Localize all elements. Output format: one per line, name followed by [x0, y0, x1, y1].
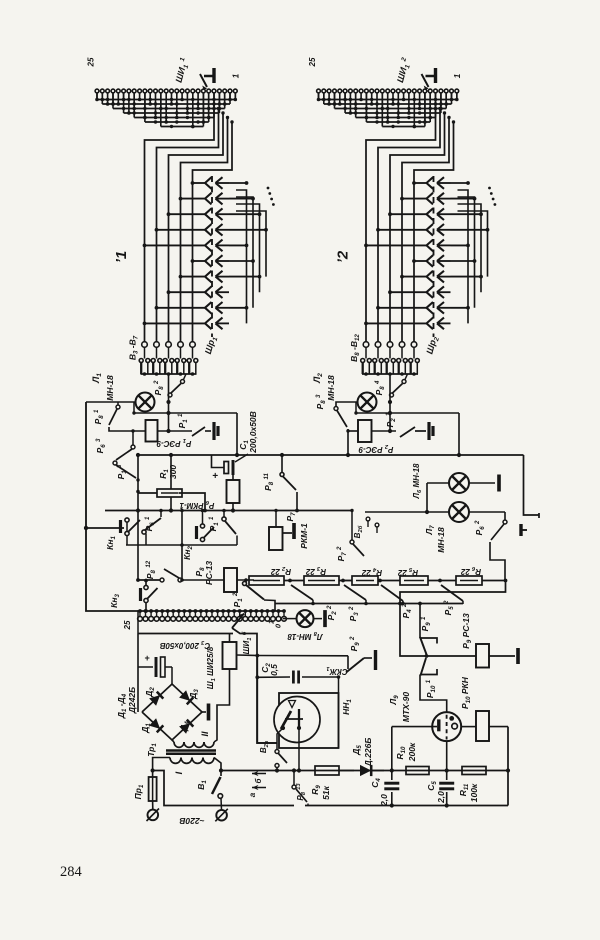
capacitor C3 — [155, 657, 158, 677]
contact P6-3 — [132, 431, 134, 445]
resistor chain wire — [237, 579, 254, 581]
bus 2 — [105, 510, 352, 512]
fixed contact bar (P6-2) — [519, 524, 522, 536]
tube L9 MTX-90 — [432, 712, 461, 741]
wire kn chain down — [126, 544, 237, 546]
upper link wire right — [356, 412, 459, 414]
ground (P9) — [489, 655, 515, 657]
left vertical bus x138 — [137, 455, 139, 580]
stepping switch bank ShI1b line — [140, 610, 284, 612]
connector Шр_2 contacts — [427, 177, 434, 183]
svg-text:РКМ-1: РКМ-1 — [299, 523, 309, 549]
svg-text:25: 25 — [123, 620, 132, 630]
wire lamp L1 left feed — [86, 401, 136, 403]
lower collect bus — [275, 603, 463, 605]
relay P6 coil — [227, 480, 240, 503]
svg-text:1: 1 — [453, 73, 462, 78]
resistor R6 — [456, 576, 482, 585]
relay P9 coil RS-13 — [476, 644, 489, 668]
svg-text:300: 300 — [168, 465, 178, 479]
capacitor C5 — [445, 768, 449, 772]
wire R1 bypass vertical — [170, 455, 172, 490]
contact P8-1 — [116, 405, 120, 409]
wiper ShI1b — [232, 614, 244, 629]
resistor R4 — [352, 576, 378, 585]
stepping switch bank ShI1b pins — [138, 609, 142, 613]
pushbutton Kn1 — [86, 527, 124, 529]
diode D4 — [179, 723, 190, 734]
wire P1 to contact — [158, 430, 191, 432]
contact feed wires — [193, 182, 206, 184]
svg-text:I: I — [174, 771, 185, 774]
lamp L7 — [449, 502, 469, 522]
svg-text:МТХ-90: МТХ-90 — [401, 692, 411, 723]
svg-text:Д.226Б: Д.226Б — [363, 738, 373, 768]
matrix wires to connector — [366, 104, 436, 341]
NN1 leads — [277, 728, 283, 736]
svg-text:51к: 51к — [321, 785, 331, 799]
contact P8-2 — [168, 393, 172, 397]
contact P4-2 — [381, 585, 403, 601]
resistor R3 — [304, 576, 339, 585]
terminals В_3-В_7 — [142, 342, 148, 348]
contact B2b jacks — [366, 517, 370, 521]
probe arrows a b — [252, 773, 266, 775]
wiper of ШИ_1^2 — [434, 68, 437, 83]
contact P1-1b — [222, 517, 226, 521]
ground (P7) — [283, 532, 292, 534]
contact P7-2 — [351, 511, 353, 541]
wiper of ШИ_1^1 — [212, 68, 215, 83]
connector return wires — [236, 190, 247, 323]
ellipsis dots — [267, 187, 270, 190]
ground (L8) — [323, 610, 327, 627]
wire C3 to bridge — [171, 667, 173, 684]
capacitor C3 wires — [137, 634, 139, 713]
lamp jack sockets — [139, 359, 143, 363]
svg-text:100к: 100к — [469, 783, 479, 802]
diode D2 — [149, 695, 160, 706]
contact P3-2 — [344, 585, 366, 600]
diode D5 — [339, 770, 354, 772]
resistor R5 — [400, 576, 428, 585]
capacitor C1 — [212, 455, 225, 468]
svg-text:284: 284 — [60, 864, 83, 880]
svg-text:2,0: 2,0 — [379, 794, 389, 807]
relay P8 row wire — [138, 579, 160, 581]
supply top wire — [138, 633, 233, 635]
relay P7 coil — [269, 527, 283, 550]
connector Шр_2 dashed line — [433, 176, 435, 337]
resistor R11 — [462, 767, 486, 775]
wire P2 to contact — [372, 430, 397, 432]
contact P9-2 SKZh1 — [257, 655, 348, 657]
connector return wires — [458, 190, 469, 323]
stepping switch field ШИ_1^2 pin row — [317, 89, 321, 93]
connector Шр_1 dashed line — [211, 176, 213, 337]
capacitor C2 wire — [255, 675, 259, 679]
terminal to jack stubs — [144, 347, 146, 358]
svg-text:0,5: 0,5 — [269, 664, 279, 676]
pin bus mesh — [319, 99, 457, 101]
coil bottom wire — [214, 669, 230, 742]
contact P6-2 — [504, 512, 506, 520]
wire P8-3 down to bus — [347, 429, 349, 455]
tube cathode wire — [446, 741, 448, 771]
wire lamp L2 left lead — [336, 402, 358, 407]
connector Шр_1 contacts — [205, 177, 212, 183]
main middle bus — [138, 454, 524, 456]
wire bus to P9 row — [400, 581, 506, 657]
svg-text:Д242Б: Д242Б — [127, 687, 137, 714]
ellipsis dots — [488, 187, 491, 190]
contact P9-1 — [419, 604, 421, 639]
main lower rail — [221, 770, 508, 772]
stepping coil ShI1 — [223, 642, 237, 669]
wire L7 leads — [426, 483, 428, 512]
svg-text:200к: 200к — [407, 742, 417, 762]
left vertical to B2a corner — [257, 656, 277, 744]
contact P8-4 — [390, 393, 394, 397]
contact P1-3 — [113, 461, 117, 465]
wire C2 right down — [338, 677, 340, 748]
contact B2a — [276, 736, 278, 749]
relay P7 feed — [275, 511, 277, 528]
transformer Tr1 primary I — [170, 758, 181, 764]
svg-text:МН-18: МН-18 — [436, 527, 446, 553]
upper link wire — [134, 412, 237, 414]
contact P8-12 — [160, 578, 164, 582]
svg-text:МН-18: МН-18 — [105, 375, 115, 401]
svg-text:~220В: ~220В — [179, 816, 204, 826]
lamp L8 — [283, 618, 296, 620]
resistor R2 — [249, 576, 284, 585]
switch V1 — [214, 758, 221, 777]
wire jack bus 2 to lamp L2 — [389, 374, 391, 431]
svg-text:+: + — [212, 471, 218, 482]
transformer Tr1 secondary II — [174, 742, 184, 747]
lamp L2 — [358, 393, 377, 412]
capacitor C4 — [390, 768, 394, 772]
relay P1 coil — [146, 420, 158, 442]
contact feed wires — [414, 182, 427, 184]
resistor R9 — [315, 766, 339, 775]
svg-text:’1: ’1 — [113, 251, 130, 264]
contact P6-1 — [142, 530, 146, 534]
ground (bridge) — [202, 711, 206, 713]
matrix wires to connector — [145, 104, 215, 341]
contact P1-2 — [245, 581, 247, 582]
relay P2 row wire — [348, 430, 358, 432]
svg-text:2,0: 2,0 — [436, 791, 446, 804]
bus corner right — [524, 455, 540, 515]
indicator NN1 frame — [279, 693, 339, 748]
svg-text:+: + — [144, 653, 150, 663]
contact P5-2 — [441, 585, 463, 601]
indicator NN1 bulb — [274, 697, 320, 743]
pushbutton Kn2 — [195, 526, 198, 539]
transformer core — [166, 749, 216, 752]
svg-text:200,0х50В: 200,0х50В — [248, 411, 258, 454]
wire to tube L9 — [420, 675, 447, 713]
stepping coil ShI1 feed — [229, 634, 231, 643]
svg-text:1: 1 — [267, 620, 276, 624]
pushbutton Kn3 — [86, 605, 140, 611]
fuse Pr1 — [149, 777, 157, 801]
ground (P1-1) — [212, 422, 215, 440]
return rail riser — [153, 771, 294, 806]
contact P1-1 — [190, 430, 192, 432]
bottom return rail — [305, 805, 508, 807]
mains terminal right — [216, 810, 227, 821]
coil right wire — [237, 654, 258, 657]
left supply rail — [85, 402, 87, 605]
lamp L1 — [136, 393, 155, 412]
wire L6 leads — [427, 482, 449, 484]
svg-text:РС-13: РС-13 — [204, 561, 214, 585]
svg-text:1: 1 — [231, 73, 240, 78]
leader line C1 — [235, 454, 248, 462]
ground (L6) — [497, 475, 501, 492]
lamp jack sockets — [361, 359, 365, 363]
wire relay P1 row — [109, 427, 146, 431]
mains terminal left — [152, 801, 154, 810]
jack bus — [141, 373, 197, 375]
ground (P2-1) — [427, 422, 430, 440]
tube starter wire — [392, 726, 437, 728]
primary left lead to fuse — [153, 758, 170, 778]
right vertical — [507, 727, 509, 806]
wire jack bus to lamp L1 — [168, 374, 170, 431]
terminal to jack stubs — [365, 347, 367, 358]
pin bus mesh — [97, 99, 235, 101]
contact P8-3 — [334, 407, 338, 411]
resistor R1 — [157, 489, 182, 497]
wire P6 to bus2 — [232, 503, 234, 511]
svg-text:II: II — [200, 731, 210, 737]
svg-text:25: 25 — [87, 57, 96, 67]
resistor R10 — [395, 770, 406, 772]
contact P10-1 — [421, 658, 427, 676]
contact P2-2 — [291, 585, 313, 600]
lamp L6 — [449, 473, 469, 493]
node C1 corner — [236, 413, 238, 455]
svg-text:а: а — [248, 792, 257, 797]
jack bus — [362, 373, 418, 375]
terminals В_8-В_{12} — [363, 342, 369, 348]
diode bridge D1-D4 — [142, 684, 202, 740]
fixed bar (P9-2) — [374, 650, 377, 670]
wire P1-2 chain to bank — [274, 604, 276, 612]
diode D1 — [149, 718, 160, 729]
diode D3 — [179, 690, 190, 701]
svg-text:МН-18: МН-18 — [326, 375, 336, 401]
relay P2 coil — [358, 420, 372, 442]
svg-text:25: 25 — [308, 57, 317, 67]
stepping switch field ШИ_1^1 pin row — [95, 89, 99, 93]
contact P8-11 — [281, 455, 283, 472]
relay P10 RKN coil — [476, 711, 489, 741]
NN1 electrodes — [289, 701, 296, 708]
wire bank to supply — [138, 611, 140, 634]
capacitor C2 — [292, 671, 295, 684]
contact P8-13 — [292, 785, 296, 789]
svg-text:’2: ’2 — [335, 250, 352, 263]
contact P2-1 — [400, 427, 415, 437]
relay P8 coil — [224, 568, 237, 592]
